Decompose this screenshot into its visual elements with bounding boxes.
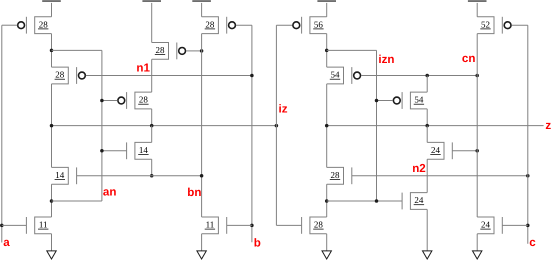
wire iz to M11 gate — [276, 24, 292, 26]
pmos M2 W=28 gate=b — [52, 67, 86, 84]
nmos M8 W=14 gate=an — [127, 142, 152, 159]
power rail VDD symbol (over M4) — [192, 0, 211, 17]
wire M7 to an-node junction — [51, 184, 53, 217]
nmos M19 W=24 gate=c — [477, 217, 502, 234]
junction bn / M7 gate rail — [200, 174, 204, 178]
svg-text:n1: n1 — [136, 62, 150, 75]
junction c / M19 gate — [526, 224, 530, 228]
ground symbol under M10 — [197, 234, 206, 259]
svg-text:28: 28 — [139, 95, 149, 105]
svg-text:izn: izn — [378, 53, 394, 66]
junction iz bus / left chain — [50, 124, 54, 128]
junction a / M9 gate — [0, 224, 4, 228]
svg-text:28: 28 — [331, 170, 341, 180]
wire M4 gate to net b corner — [236, 24, 252, 26]
wire M9 gate to a rail — [2, 224, 27, 226]
svg-text:54: 54 — [331, 70, 341, 80]
wire M3 gate to net bn — [186, 50, 202, 52]
nmos M10 W=11 gate=b — [202, 217, 227, 234]
pmos M14 W=52 gate=c — [477, 17, 511, 34]
junction cn / M12 gate wire — [475, 74, 479, 78]
junction z bus / M13-M17 chain — [425, 124, 429, 128]
wire M12 gate to cn — [361, 75, 477, 77]
pmos M1 W=28 gate=a — [18, 17, 52, 34]
svg-text:11: 11 — [39, 220, 48, 230]
junction iz bus / M5-M8 chain — [150, 124, 154, 128]
svg-text:z: z — [545, 119, 551, 132]
wire right chain M12 to z bus — [326, 84, 328, 167]
wire M17 chain from z bus — [426, 126, 428, 143]
svg-text:24: 24 — [414, 195, 424, 205]
junction iz bus / iz line — [275, 124, 279, 128]
nmos M9 W=11 gate=a — [26, 217, 51, 234]
wire M13 source up to M12 gate wire — [426, 76, 428, 93]
junction c / M15 gate — [526, 174, 530, 178]
z bus wire — [327, 125, 544, 127]
junction M8 source / M7 gate rail — [150, 174, 154, 178]
junction b / M10 gate — [250, 224, 254, 228]
svg-text:14: 14 — [139, 145, 149, 155]
wire left chain M2 to iz bus — [51, 84, 53, 167]
svg-text:a: a — [3, 236, 10, 249]
junction node an at left chain — [50, 49, 54, 53]
svg-text:an: an — [103, 185, 117, 198]
wire M13 gate to izn — [377, 100, 393, 102]
wire M5 to iz bus — [151, 109, 153, 126]
nmos M18 W=24 gate=izn — [402, 193, 427, 210]
nmos M16 W=28 gate=iz — [302, 217, 327, 234]
wire M1 gate to input a — [2, 24, 17, 26]
net c vertical line — [527, 25, 529, 244]
ground symbol under M18 — [423, 251, 432, 259]
nmos M15 W=28 gate=c — [327, 167, 352, 184]
svg-text:c: c — [529, 236, 536, 249]
pmos M4 W=28 gate=b — [202, 17, 236, 34]
svg-text:28: 28 — [205, 19, 215, 29]
ground symbol under M9 — [47, 234, 56, 259]
wire node n1 (M3-M5) — [151, 59, 153, 92]
svg-text:iz: iz — [279, 103, 288, 116]
nmos M7 W=14 gate=bn — [52, 167, 77, 184]
iz bus wire — [52, 125, 277, 127]
pmos M3 W=28 gate=bn — [152, 43, 186, 60]
ground symbol under M16 — [322, 234, 331, 259]
net bn vertical line (M4 drain) — [201, 34, 203, 217]
wire M19 gate to net c — [502, 224, 528, 226]
junction b / M2 gate — [250, 74, 254, 78]
wire M15 gate to net c — [352, 175, 528, 177]
power rail VDD symbol (left, over M1/M2 stack) — [42, 0, 61, 17]
net b vertical line — [251, 25, 253, 242]
wire an line bottom corner — [52, 200, 102, 202]
svg-text:52: 52 — [481, 19, 490, 29]
wire M14 gate to net c corner — [512, 24, 528, 26]
power rail VDD symbol (over M11/M12 stack) — [317, 0, 336, 17]
wire M18 to ground — [426, 209, 428, 251]
svg-text:28: 28 — [314, 220, 324, 230]
junction cn / M17 gate — [475, 149, 479, 153]
net cn vertical line (M14 drain) — [476, 34, 478, 217]
svg-text:28: 28 — [156, 45, 166, 55]
svg-text:n2: n2 — [412, 162, 426, 175]
net iz vertical line — [275, 25, 277, 225]
pmos M5 W=28 gate=an — [118, 92, 152, 109]
svg-text:bn: bn — [187, 186, 201, 199]
junction z bus / right chain — [325, 124, 329, 128]
ground symbol under M19 — [473, 234, 482, 259]
junction an / M8 gate — [100, 149, 104, 153]
input a rail — [1, 25, 3, 242]
wire M17 gate to cn — [452, 150, 477, 152]
svg-text:11: 11 — [206, 220, 215, 230]
nmos M17 W=24 gate=cn — [427, 142, 452, 159]
wire node izn branch — [327, 49, 377, 51]
junction M13 source on M12 gate wire — [425, 74, 429, 78]
junction izn node bottom — [325, 199, 329, 203]
wire iz to M16 gate — [276, 224, 301, 226]
pmos M12 W=54 gate=cn — [327, 67, 361, 84]
wire izn bottom to M18 gate — [327, 200, 402, 202]
wire node an branch — [52, 49, 102, 51]
wire right chain M11-M12 — [326, 34, 328, 68]
wire left chain M1-M2 — [51, 34, 53, 68]
wire M2 gate to net b — [86, 75, 252, 77]
wire M8 gate to net an — [102, 150, 127, 152]
wire M7 gate rail to bn — [77, 175, 202, 177]
net an vertical line — [101, 50, 103, 201]
junction bn / M3 gate — [200, 49, 204, 53]
wire M13 drain to z bus — [426, 109, 428, 126]
svg-text:24: 24 — [481, 220, 491, 230]
wire node n2 (M17-M18) — [426, 159, 428, 192]
wire M8 source down to M7 gate rail — [151, 159, 153, 176]
net izn vertical line — [376, 50, 378, 201]
svg-text:28: 28 — [39, 19, 49, 29]
junction node izn at right chain — [325, 49, 329, 53]
wire M5/M8 chain through bus — [151, 126, 153, 143]
svg-text:54: 54 — [414, 95, 424, 105]
pmos M11 W=56 gate=iz — [293, 17, 327, 34]
junction an / M5 gate — [100, 99, 104, 103]
power rail VDD symbol (over M14) — [468, 0, 487, 17]
svg-text:28: 28 — [55, 70, 65, 80]
power rail VDD symbol (over M3/M5 stack) — [142, 0, 161, 42]
svg-text:cn: cn — [462, 52, 476, 65]
svg-text:56: 56 — [314, 19, 324, 29]
wire M10 gate to net b — [227, 224, 252, 226]
svg-text:b: b — [254, 236, 261, 249]
junction izn / M13 gate — [375, 99, 379, 103]
junction izn line / M18 gate wire — [375, 199, 379, 203]
junction an node bottom — [50, 199, 54, 203]
svg-text:14: 14 — [55, 170, 65, 180]
wire M15 source down to izn junction — [326, 184, 328, 217]
pmos M13 W=54 gate=izn — [393, 92, 427, 109]
svg-text:24: 24 — [431, 145, 441, 155]
wire M5 gate to net an — [102, 100, 118, 102]
